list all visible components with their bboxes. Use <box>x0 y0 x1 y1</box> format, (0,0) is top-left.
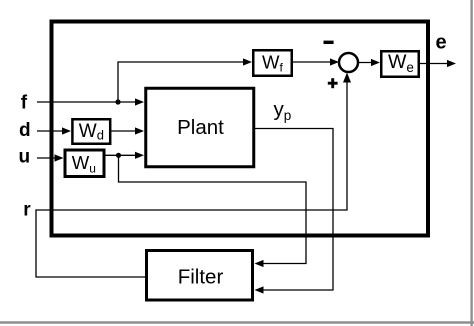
svg-text:Filter: Filter <box>178 266 224 289</box>
svg-text:e: e <box>436 32 447 54</box>
svg-text:d: d <box>19 120 31 141</box>
svg-text:r: r <box>23 200 31 221</box>
svg-text:f: f <box>21 93 28 114</box>
svg-text:u: u <box>19 147 31 168</box>
svg-text:Plant: Plant <box>177 116 224 139</box>
